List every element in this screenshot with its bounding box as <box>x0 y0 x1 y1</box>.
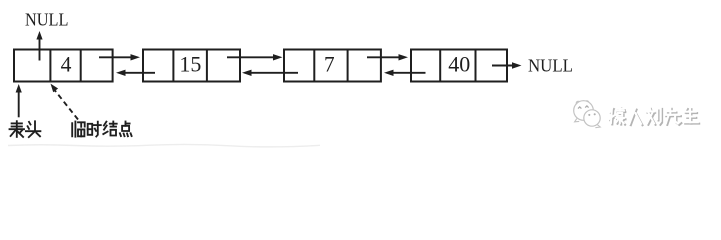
watermark icon: chat bubbles <box>574 101 601 128</box>
svg-text:40: 40 <box>448 52 470 77</box>
svg-text:15: 15 <box>179 52 201 77</box>
svg-text:7: 7 <box>324 52 335 77</box>
svg-text:NULL: NULL <box>25 9 69 29</box>
faint scan squiggle bottom left <box>8 144 320 146</box>
label 表头 (list head) <box>10 121 41 137</box>
label 临时结点 (temporary node) <box>72 122 131 137</box>
prev-pointer arrow N4 to N3 <box>384 70 426 76</box>
node N2 box <box>143 50 240 82</box>
next-pointer arrow N1 to N2 <box>99 54 140 60</box>
watermark text 猿人刘先生 <box>609 107 699 125</box>
prev-pointer arrow N2 to N1 <box>116 70 155 76</box>
node N3 box <box>284 50 381 82</box>
next-pointer arrow N2 to N3 <box>227 54 283 60</box>
prev-pointer arrow N3 to N2 <box>242 70 298 76</box>
svg-text:NULL: NULL <box>528 56 573 76</box>
node N1 box <box>14 50 113 82</box>
node N4 box <box>411 50 507 82</box>
wire: N1 prev cell up to NULL <box>36 31 42 61</box>
dashed pointer arrow (临时结点 temporary node) <box>51 84 79 120</box>
next-pointer arrow N4 to NULL <box>492 62 522 68</box>
next-pointer arrow N3 to N4 <box>367 54 408 60</box>
head pointer arrow (to 表头) <box>16 84 22 117</box>
svg-text:4: 4 <box>61 52 72 77</box>
